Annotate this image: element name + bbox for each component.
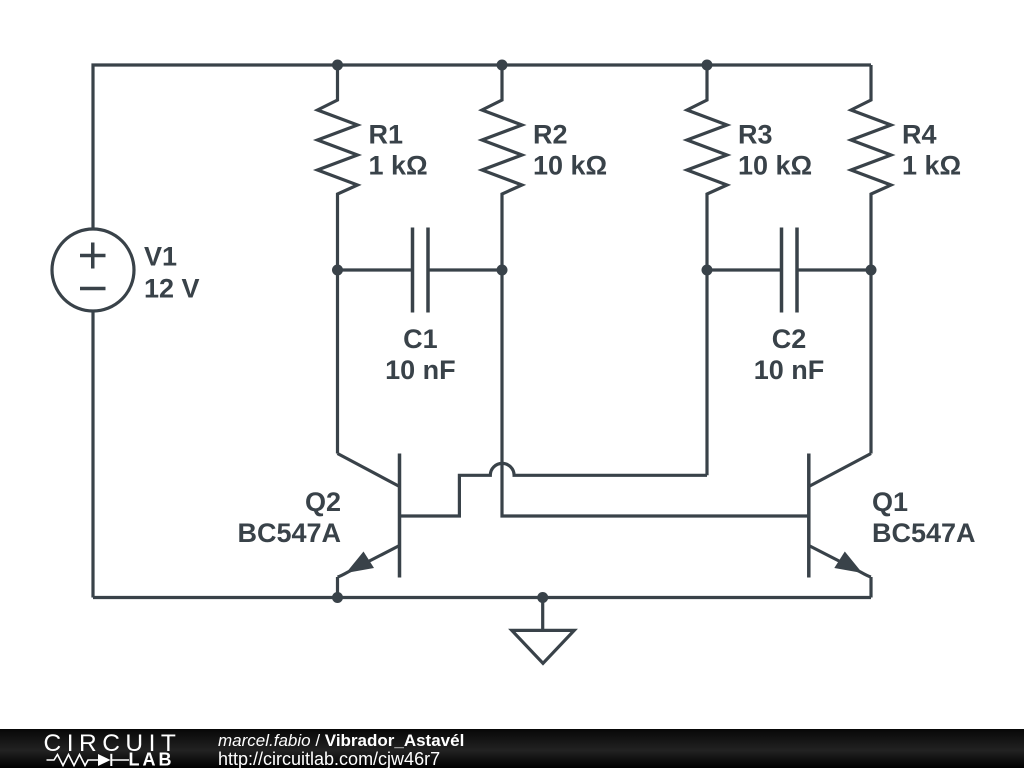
capacitor C2: [707, 268, 871, 271]
footer bar: [0, 729, 1024, 768]
node C1 left: [332, 265, 343, 276]
svg-text:BC547A: BC547A: [237, 518, 341, 548]
resistor R3: [687, 65, 727, 270]
svg-text:C2: C2: [772, 324, 807, 354]
svg-text:10 nF: 10 nF: [385, 355, 456, 385]
Q1 emitter arrow: [834, 552, 862, 574]
wire top rail and left drop to V1: [93, 65, 871, 229]
svg-text:10 nF: 10 nF: [754, 355, 825, 385]
svg-text:LAB: LAB: [129, 750, 175, 768]
node ground rail: [537, 592, 548, 603]
node top R2: [497, 60, 508, 71]
transistor Q1: [807, 454, 811, 578]
Q2 emitter arrow: [346, 552, 374, 574]
node top R1: [332, 60, 343, 71]
svg-text:R2: R2: [533, 120, 568, 150]
svg-text:marcel.fabio / Vibrador_Astavé: marcel.fabio / Vibrador_Astavél: [218, 731, 464, 750]
svg-text:10 kΩ: 10 kΩ: [533, 151, 607, 181]
svg-text:1 kΩ: 1 kΩ: [369, 151, 428, 181]
wire R3/C2 down to crossover: [705, 270, 708, 475]
wire R2/C1 down and across to Q1 base: [502, 270, 808, 516]
wire bottom rail: [93, 596, 871, 599]
svg-text:BC547A: BC547A: [872, 518, 976, 548]
wire R1 to Q2 collector node: [336, 270, 339, 454]
wire R4 to Q1 collector node: [869, 270, 872, 454]
svg-text:R4: R4: [902, 120, 937, 150]
node Q2 emitter rail: [332, 592, 343, 603]
transistor Q2: [398, 454, 402, 578]
svg-text:R1: R1: [369, 120, 404, 150]
wire Q2 base with hop over vertical: [400, 463, 708, 516]
resistor R1: [318, 65, 358, 270]
node top R3: [702, 60, 713, 71]
svg-text:12 V: 12 V: [144, 274, 200, 304]
svg-text:R3: R3: [738, 120, 773, 150]
ground: [541, 598, 544, 631]
capacitor C1: [338, 268, 503, 271]
svg-text:C1: C1: [403, 324, 438, 354]
wire V1 bottom to bottom rail: [91, 311, 94, 598]
node C1 right: [497, 265, 508, 276]
voltage source V1: [52, 229, 134, 311]
svg-text:10 kΩ: 10 kΩ: [738, 151, 812, 181]
svg-text:V1: V1: [144, 242, 177, 272]
node C2 right: [866, 265, 877, 276]
svg-text:1 kΩ: 1 kΩ: [902, 151, 961, 181]
svg-text:http://circuitlab.com/cjw46r7: http://circuitlab.com/cjw46r7: [218, 749, 440, 768]
resistor R4: [851, 65, 891, 270]
node C2 left: [702, 265, 713, 276]
resistor R2: [482, 65, 522, 270]
svg-text:Q2: Q2: [305, 487, 341, 517]
footer logo resistor-diode icon: [47, 754, 130, 766]
svg-text:Q1: Q1: [872, 487, 908, 517]
